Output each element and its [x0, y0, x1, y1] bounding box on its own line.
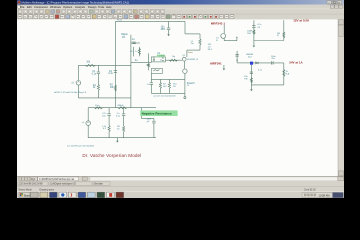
node selected blue [250, 62, 253, 65]
wire U1 to R5 [165, 59, 181, 61]
svg-text:DC 1/4 1Phase 5 @0 5or60 Ω: DC 1/4 1Phase 5 @0 5or60 Ω [67, 146, 94, 148]
transistor Q2 body [221, 34, 226, 39]
svg-text:Tools: Tools [98, 5, 105, 9]
inductor L2 [94, 107, 102, 109]
lower rail of driver block [151, 78, 185, 80]
svg-text:1.5m: 1.5m [95, 105, 100, 107]
wire IC left stub [147, 53, 149, 62]
ground under Q2 [223, 65, 225, 67]
svg-text:Component: Component [34, 5, 48, 9]
resistor R9 load [283, 69, 285, 76]
svg-text:Multisim Multistage - [C:\Prog: Multisim Multistage - [C:\Program Files\… [22, 0, 130, 4]
svg-text:0.1u: 0.1u [92, 73, 97, 75]
svg-text:240kΩ: 240kΩ [117, 105, 124, 107]
svg-text:File: File [20, 5, 25, 9]
svg-text:Cmd 82 32: Cmd 82 32 [304, 189, 316, 192]
svg-text:Windows: Windows [50, 5, 62, 9]
svg-text:Start: Start [24, 194, 30, 198]
svg-text:CD4007: CD4007 [157, 56, 166, 58]
svg-text:_: _ [327, 0, 330, 4]
wire upper loop bottom [254, 40, 284, 42]
capacitor C9 [250, 71, 253, 73]
svg-text:Help: Help [106, 5, 112, 9]
svg-text:MOSFET_N: MOSFET_N [187, 59, 198, 61]
diode D1 vertical [236, 51, 238, 63]
wire V3 to lower rail [184, 74, 186, 80]
resistor R7 branch x169 [168, 79, 170, 82]
capacitor C1 on branch x98 [97, 65, 99, 71]
wire drain step down [184, 21, 186, 34]
resistor R4 under IC left [147, 62, 149, 63]
wire V3 branch to terminal [184, 79, 186, 93]
wire upper right vertical from top [253, 20, 255, 40]
ground upper loop [253, 41, 255, 45]
svg-text:R-B: R-B [247, 33, 251, 35]
svg-text:Simulate: Simulate [94, 183, 104, 186]
transistor Q1 [182, 57, 186, 61]
wire output loop right [283, 63, 285, 85]
svg-text:Drain: Drain [188, 51, 194, 54]
svg-text:1u: 1u [135, 51, 137, 53]
resistor R11 1M [283, 32, 285, 38]
diode D2 horizontal [253, 62, 284, 64]
node open terminal [184, 97, 186, 99]
svg-text:Coil/Digital switchgear 25: Coil/Digital switchgear 25 [50, 183, 77, 186]
svg-text:R-B: R-B [286, 73, 290, 75]
resistor R8 [250, 78, 252, 83]
wire upper loop right vertical [283, 20, 285, 40]
capacitor C10 [252, 25, 255, 27]
wire input loop top [78, 64, 130, 66]
svg-text:Analysis: Analysis [75, 5, 86, 9]
wire Q2 emitter L [224, 40, 237, 42]
capacitor C12 branch [123, 108, 125, 114]
svg-text:1u: 1u [160, 60, 162, 62]
resistor R5 gate [169, 59, 177, 61]
node VCC bypass branch [168, 21, 170, 27]
svg-text:2m: 2m [191, 43, 194, 45]
wire output loop left [250, 65, 252, 85]
svg-text:Pg1: Pg1 [31, 179, 36, 181]
source V2 [87, 108, 89, 121]
svg-text:0.1u: 0.1u [108, 73, 113, 75]
ground below second loop [116, 138, 118, 140]
wire second loop bottom [88, 137, 156, 139]
svg-text:25%: 25% [161, 29, 166, 31]
transistor Q2 collector wire [223, 25, 225, 41]
svg-text:Options: Options [63, 5, 73, 9]
wire drain to Q1 [187, 49, 200, 51]
svg-text:Ripple: Ripple [121, 34, 128, 36]
component pair under C4 [132, 47, 134, 57]
wire right edge of input loop [130, 35, 132, 108]
wire output loop bottom [251, 84, 283, 86]
svg-text:Drawing area: Drawing area [40, 188, 55, 191]
resistor R1 input series [85, 64, 95, 66]
wire to output node [237, 62, 250, 64]
svg-text:Edit: Edit [27, 5, 32, 9]
wire second loop right vertical [140, 108, 142, 119]
capacitor C5 branch x151 [150, 73, 152, 79]
svg-text:Dr. Vatche Vorperian Model: Dr. Vatche Vorperian Model [82, 153, 141, 158]
svg-text:AC/DC 1.0 PeakV 1k 0Hz 0Deg 1: AC/DC 1.0 PeakV 1k 0Hz 0Deg 1 Ω [54, 91, 86, 94]
source V1 AC [77, 65, 79, 80]
source V3 [183, 69, 187, 73]
resistor R13 branch [108, 126, 110, 132]
svg-text:Power: Power [117, 19, 123, 22]
svg-text:120.9mV/88 166.2V/88: 120.9mV/88 166.2V/88 [19, 184, 43, 186]
ground output loop [250, 85, 252, 88]
resistor R2 on branch x98 [97, 84, 99, 90]
svg-text:C:\EWB512\SAMPLES\amp2.ca1: C:\EWB512\SAMPLES\amp2.ca1 [39, 178, 75, 181]
capacitor C4 small network [131, 42, 140, 44]
wire lower rail bottom [151, 92, 185, 94]
wire second loop top [88, 107, 156, 109]
wire main vertical trunk [114, 21, 116, 107]
svg-text:Design: Design [88, 5, 97, 9]
resistor R14 branch [123, 126, 125, 132]
label U1 part green highlight [157, 54, 165, 57]
svg-text:1%: 1% [173, 86, 176, 88]
wire to IC input [131, 61, 149, 63]
wire input loop bottom [78, 97, 130, 99]
resistor R3 on trunk branch x115 [114, 85, 116, 91]
svg-text:2%: 2% [130, 51, 133, 53]
op-amp U1 box [151, 57, 165, 62]
svg-text:Negative Resistance: Negative Resistance [142, 112, 172, 116]
svg-text:can ium Ctu statement20: can ium Ctu statement20 [153, 95, 176, 98]
capacitor C8 on output wire [270, 61, 272, 64]
capacitor C11 branch [108, 108, 110, 114]
svg-text:24V at 1A: 24V at 1A [289, 61, 303, 65]
resistor R6 branch x160 [159, 79, 161, 82]
wire top power rail [115, 20, 185, 22]
capacitor C13 45.8pF [153, 118, 155, 120]
svg-text:Select Mode: Select Mode [19, 188, 33, 191]
capacitor C2 on trunk branch x115 [114, 70, 117, 72]
node junction dot [236, 59, 237, 60]
svg-text:MRF341-1: MRF341-1 [211, 22, 226, 26]
svg-text:MRF341: MRF341 [210, 62, 222, 66]
wire to negative resistance cap [141, 117, 154, 119]
inductor L1 drain [199, 34, 201, 39]
resistor R12 240k [118, 107, 127, 109]
ground below C7 [168, 33, 170, 34]
label Negative Resistance [140, 110, 177, 116]
svg-text:1%: 1% [122, 37, 125, 39]
arrow current direction [236, 36, 238, 38]
capacitor C7 bypass [167, 27, 170, 29]
resistor R10 [253, 30, 255, 35]
svg-text:10:58 AM: 10:58 AM [319, 193, 330, 197]
svg-text:12V at 0.5A: 12V at 0.5A [293, 19, 310, 23]
